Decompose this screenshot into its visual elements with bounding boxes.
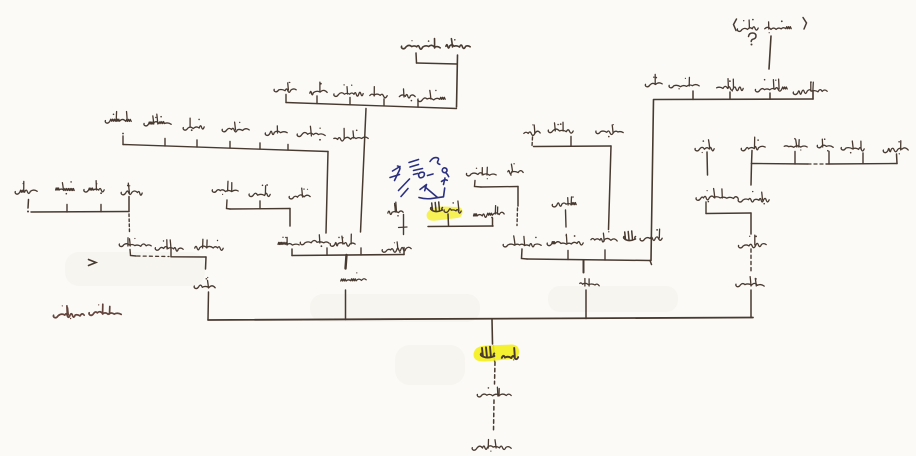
wire tick محمود [349,98,351,105]
wire bracket ممدوح horizontal [654,98,813,101]
name علي (الابن) [194,277,215,289]
name محمود [334,84,363,96]
name جمال (عرسان branch) [695,140,714,153]
name طارق [212,181,238,195]
wire tick كرم [383,99,385,106]
name جمال [195,239,223,250]
name ماهر [274,82,296,93]
name عبد (عبد الله) [640,229,662,241]
name رجب (الثاني) [155,240,183,251]
wire drop حسن to main line [750,290,752,318]
wire tick فضل [196,140,198,147]
name الله (عبد الله) [624,231,636,241]
wire long drop أمل to سقراط bracket corner [651,100,654,261]
name الله (حسين عبد الله) [431,202,443,212]
wire bracket under ابراهيم row horizontal [123,145,328,152]
wire tick عمر [259,143,261,149]
wire bracket شوقي horizontal 2 [826,163,897,166]
name محمد (الأخ) [883,141,908,155]
wire bracket سقراط left hook [522,249,528,259]
name شوكت [547,234,583,245]
wire long drop from رياض bracket to حسن (idris row) [361,109,367,233]
wire drop جبر bracket to محمد [289,209,291,227]
wire tick حسن (إدريس) [360,248,362,255]
wire tick حسن (الأخ) [862,153,864,164]
wire drop through highlight [494,346,495,361]
wire tick محمد (إدريس) [291,249,293,256]
name أسد [552,196,576,207]
wire bracket شوقي horizontal [752,163,809,166]
name مدحت [755,79,787,92]
wire bracket جمال solid [171,256,206,258]
wire tick علي (جبر) [259,201,261,209]
name يوسف [105,112,131,124]
name محمد (جمال رجب محمد) [119,238,151,247]
wire bracket under علي row left tick [27,200,30,209]
name الله (الجد) [481,347,495,358]
name إدريس (الجد الأكبر) [472,440,511,452]
wire bracket under حسن عرسان left tick [415,53,418,63]
wire dashed drop حسين to إدريس [493,400,496,431]
name إدريس (عائلة) [53,305,84,319]
wire bracket عاطف horizontal [706,212,751,215]
name حسين (والد) [341,272,366,281]
name عائلة [89,304,121,315]
name جبر (الأخ) [817,138,833,151]
wire tick بصر [417,101,419,108]
name علي (جبر علي طارق) [249,184,270,196]
name شاكر [524,124,540,135]
name حسن (الأخ) [841,141,864,154]
name حسن [330,234,355,246]
paren right of اولاد مدحت [803,18,807,30]
wire right corner hook سقراط bracket [650,261,652,265]
wire drop عمر to main line [585,290,587,319]
question mark ؟ [749,33,757,42]
wire tick غانم [287,145,289,151]
name رجب [15,181,37,194]
wire drop from أولاد مدحت [769,36,771,69]
name محمد (إدريس حسن أحمد محمد) [278,237,299,245]
wire tick مأمون [794,152,796,165]
wire main family line [208,318,753,321]
name جبر [289,188,310,199]
wire tick زياد [316,96,318,104]
wire drop main line to عبد الله [491,319,494,344]
wire tick شوكت [567,251,569,260]
wire right hook محمد (الأخ) [896,154,899,164]
name حسن (عاطف branch) [736,277,764,287]
name نعمان [717,79,744,92]
name أحمد [300,235,329,247]
name زياد [310,82,327,95]
name مدحت (أولاد) [765,20,792,33]
wire bracket إدريس row horizontal [292,255,404,256]
highlight mark on عبد الله (yellow) [427,206,463,220]
wire bracket أمل توفيق left hook [475,181,482,188]
wire tick خليل [66,205,68,213]
wire bracket under جبر row horizontal [230,208,290,211]
name شوقي [741,137,765,151]
wire bracket حكمت horizontal [534,145,612,148]
wire right tick ممدوح [812,91,814,100]
name أولاد [737,19,758,32]
wire dashed drop عبد الله to حسين [494,362,497,384]
name كرم [370,87,387,98]
wire from حسن عرسان down to bracket of رياض row [457,55,458,107]
wire drop شوقي down to عاطف [750,164,753,186]
name إدريس [382,242,411,253]
name علاء [84,181,104,194]
wire tick رجب (الثاني) [170,249,172,257]
wire drop حكمت bracket to أحمد (سقراط row) [609,146,612,230]
wire tick علي [128,197,130,212]
name عمر [265,126,287,136]
mark > [89,260,97,266]
wire tick below highlight [447,214,450,226]
wire bracket under علي row horizontal [31,211,129,214]
name حكمت [548,122,573,133]
wire thick drop to عمر [583,261,585,273]
name عبد (حسين عبد الله) [444,201,461,213]
wire bracket أمل توفيق horizontal [481,186,518,189]
wire tick علاء [100,205,102,212]
wire tick ماهر [285,95,287,103]
wire bracket سقراط horizontal [527,259,650,261]
wire tick أحمد (إدريس) [326,248,328,255]
wire drop حسين to main line [345,290,347,320]
wire drop dashed to حسين bracket [516,208,519,226]
faint scan shading (decorative) [65,252,678,385]
wire bracket under رياض row horizontal [286,103,457,109]
name حسين (عبد الله خليل) [474,206,505,219]
name عمر (الابن) [580,279,599,287]
wire bracket under حسن عرسان horizontal [417,63,458,64]
wire tick خالد [229,142,231,149]
wire tick هاشم [164,139,166,147]
wire drop solid [517,187,519,207]
wire tick يوسف [122,136,124,145]
name سقراط [503,236,541,247]
wire tick أحمد (سقراط) [604,250,606,260]
name غانم [297,126,325,140]
name محمد (حكمت) [596,124,623,137]
wire bracket جمال left hook [130,250,136,257]
wire drop شوقي to bracket [751,151,754,164]
name خالد [222,122,249,132]
name خليل [56,181,75,194]
wire up tick حسين [492,218,494,226]
wire bracket جمال dashed [137,255,169,258]
name عرسان (of حسن عرسان) [401,39,440,50]
wire bracket under حسين عبد الله [428,225,493,228]
wire drop جمال bracket to علي [205,257,208,269]
wire drop عاطف bracket to محمد [750,213,752,234]
wire small cross tick on خليل drop [399,226,408,229]
name عرسان (عاطف) [696,189,738,203]
wire bracket عاطف left tick [705,202,707,214]
wire thick drop to حسين [346,255,347,269]
name بصر [399,89,415,101]
name رياض [418,90,445,102]
wire tick حكمت [570,137,572,147]
name خليل (حسين عبد الله) [388,202,403,217]
wire drop خليل to إدريس [403,215,405,235]
wire drop علي to main line [207,292,210,320]
name ممدوح [793,81,827,94]
name عاطف [738,191,769,205]
wire drop جمال [706,152,709,175]
wire tick مدحت [769,93,771,99]
name حسين (الجد) [477,387,511,397]
name إبراهيم [334,128,368,141]
name فضل [183,118,204,131]
dot below رجب tick [27,211,29,213]
wire bracket under جبر row left hook [227,200,231,209]
name أمل (توفيق) [508,163,523,176]
highlight mark on عبد الله (bottom, yellow) [474,345,520,362]
wire tick إدريس [403,248,405,255]
paren left of اولاد مدحت [734,19,737,31]
name أحمد (سقراط row) [591,231,617,242]
wire dashed drop علي bracket to محمد [128,214,131,233]
blue ink scribble (signature) [390,158,449,199]
name أمل (ممدوح row) [645,74,662,86]
wire tick عوني [692,91,694,99]
wire bracket حكمت left dashes [531,137,534,147]
wire bracket شوقي dashed part [808,163,826,165]
wire drop from ابراهيم bracket to أحمد (idris row) [326,152,328,234]
name هاشم [144,114,171,126]
name علي (علي علاء خليل رجب) [121,183,142,195]
name توفيق [466,167,496,179]
wire tick جبر (الأخ) [828,152,830,165]
name عبد (الجد) [502,348,518,361]
name مأمون [784,138,807,151]
wire tick نعمان [729,92,731,99]
name حسن (of حسن عرسان) [446,39,470,49]
dot over يوسف tick [122,133,124,135]
wire dashed drop محمد to حسن [750,249,752,273]
name عوني [669,77,699,89]
name محمد (عاطف branch) [738,235,766,248]
wire drop أسد to شوكت [565,210,568,227]
